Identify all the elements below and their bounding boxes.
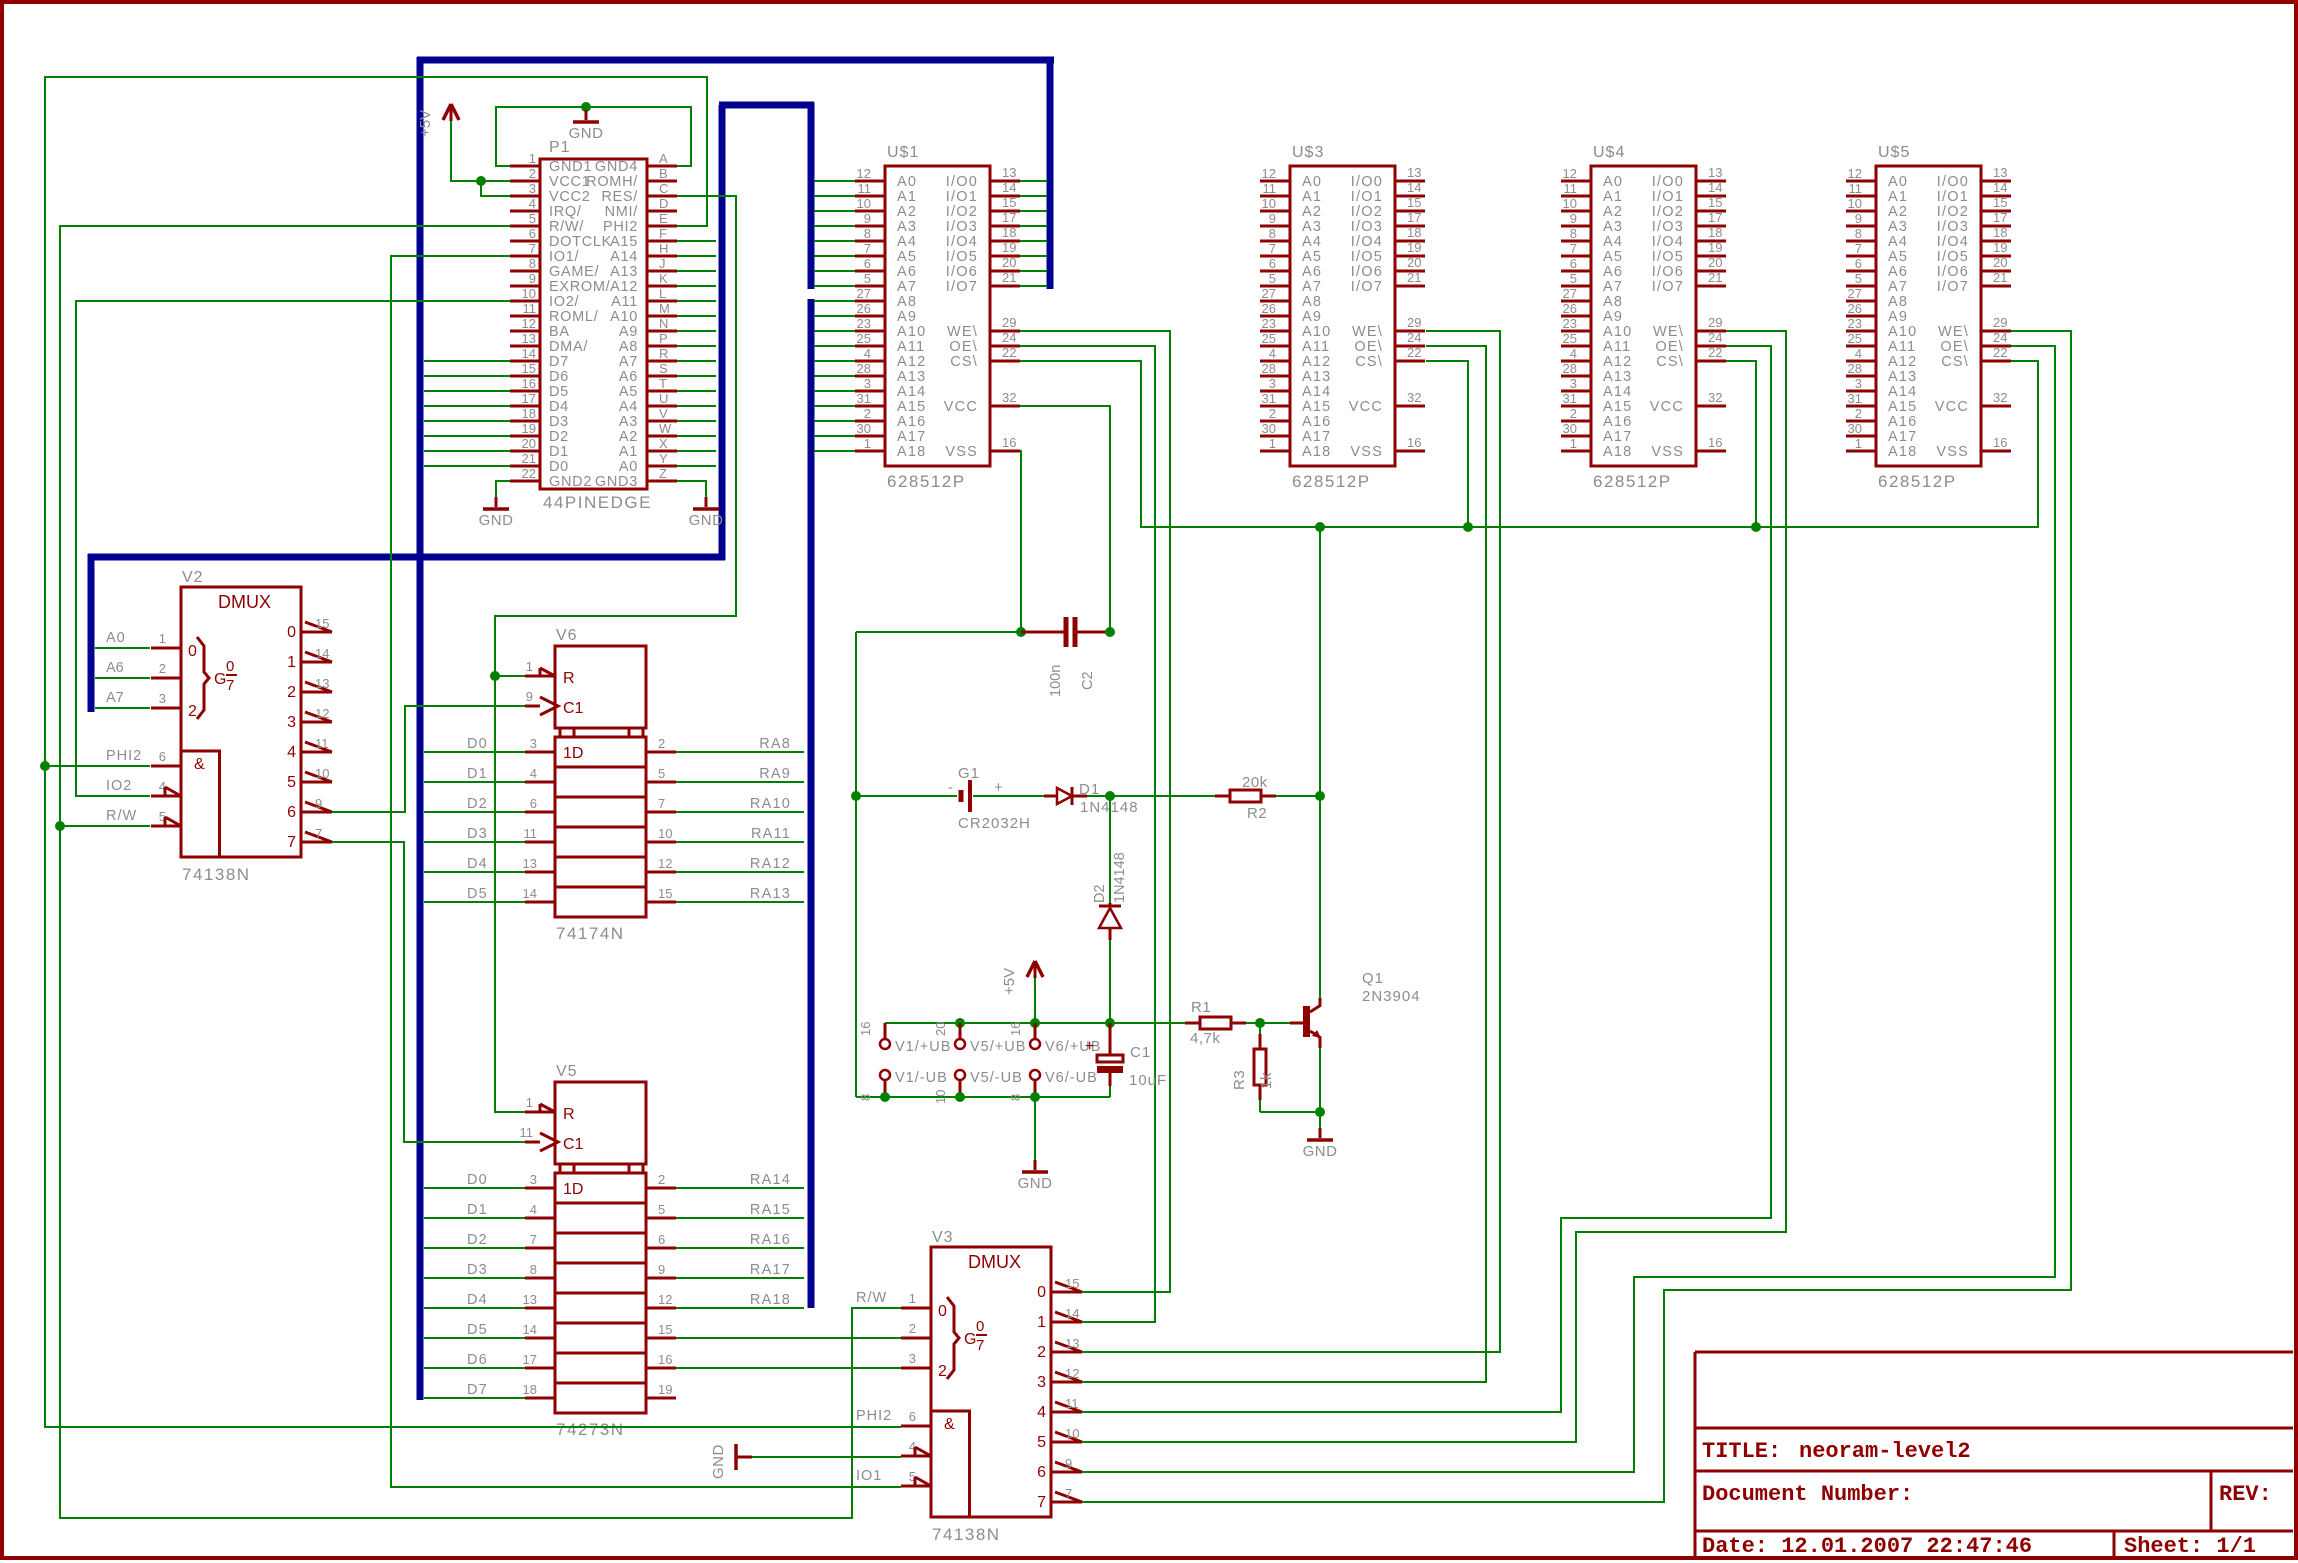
supply pin V1/-UB xyxy=(858,1070,948,1101)
svg-text:WE\: WE\ xyxy=(1653,324,1684,340)
svg-text:CR2032H: CR2032H xyxy=(958,815,1031,832)
svg-text:R1: R1 xyxy=(1191,999,1211,1016)
svg-text:D2: D2 xyxy=(549,429,569,445)
svg-text:I/O5: I/O5 xyxy=(946,249,978,265)
svg-text:A4: A4 xyxy=(1888,234,1908,250)
svg-text:4: 4 xyxy=(864,346,871,361)
svg-text:A8: A8 xyxy=(1603,294,1623,310)
svg-text:2N3904: 2N3904 xyxy=(1362,988,1421,1005)
supply pin V5/+UB xyxy=(933,1022,1026,1055)
junction R1/R3/base xyxy=(1255,1018,1265,1028)
svg-text:16: 16 xyxy=(1407,435,1421,450)
transistor Q1 2N3904 xyxy=(1290,970,1421,1048)
svg-text:A7: A7 xyxy=(619,354,638,370)
svg-text:20: 20 xyxy=(1002,255,1016,270)
diode D2 1N4148 xyxy=(1092,796,1128,1023)
svg-text:10uF: 10uF xyxy=(1129,1072,1167,1089)
svg-text:20: 20 xyxy=(1407,255,1421,270)
svg-text:A: A xyxy=(659,151,668,166)
svg-text:9: 9 xyxy=(529,271,536,286)
svg-text:8: 8 xyxy=(1008,1094,1023,1101)
svg-text:I/O6: I/O6 xyxy=(1652,264,1684,280)
svg-text:RA14: RA14 xyxy=(750,1172,791,1188)
junction rail D2/C1 xyxy=(1105,1018,1115,1028)
svg-text:A16: A16 xyxy=(1888,414,1917,430)
svg-text:21: 21 xyxy=(522,451,536,466)
svg-text:628512P: 628512P xyxy=(887,472,966,491)
svg-text:6: 6 xyxy=(864,256,871,271)
svg-text:W: W xyxy=(659,421,672,436)
title block xyxy=(1695,1352,2293,1558)
svg-text:V5: V5 xyxy=(556,1063,578,1080)
svg-text:23: 23 xyxy=(1563,316,1577,331)
svg-text:28: 28 xyxy=(1848,361,1862,376)
svg-text:RA10: RA10 xyxy=(750,796,791,812)
svg-text:15: 15 xyxy=(658,1322,672,1337)
net WE4: U$4 WE to V3 out5 xyxy=(1082,331,1786,1442)
svg-text:ROML/: ROML/ xyxy=(549,309,599,325)
wire V6 R branch xyxy=(495,675,525,677)
svg-text:E: E xyxy=(659,211,668,226)
svg-text:V2: V2 xyxy=(182,569,204,586)
svg-text:A6: A6 xyxy=(1603,264,1623,280)
svg-text:GND: GND xyxy=(710,1444,727,1479)
svg-text:2: 2 xyxy=(1570,406,1577,421)
svg-text:7: 7 xyxy=(1269,241,1276,256)
svg-text:14: 14 xyxy=(1708,180,1722,195)
wire VCC2 branch xyxy=(481,181,510,196)
svg-text:A4: A4 xyxy=(897,234,917,250)
svg-text:V6/-UB: V6/-UB xyxy=(1045,1070,1098,1086)
net VCC of U$1 down to C2 xyxy=(1020,406,1110,632)
svg-text:I/O5: I/O5 xyxy=(1937,249,1969,265)
svg-text:DMUX: DMUX xyxy=(218,592,271,612)
svg-text:4: 4 xyxy=(1037,1404,1046,1421)
junction GND loop xyxy=(581,102,591,112)
svg-text:30: 30 xyxy=(1848,421,1862,436)
svg-text:A8: A8 xyxy=(897,294,917,310)
svg-text:A17: A17 xyxy=(1603,429,1632,445)
junction R2 right xyxy=(1315,791,1325,801)
svg-text:74138N: 74138N xyxy=(932,1525,1001,1544)
svg-text:18: 18 xyxy=(523,1382,537,1397)
svg-text:A16: A16 xyxy=(1302,414,1331,430)
svg-text:22: 22 xyxy=(522,466,536,481)
wire V5 out16 to V3 pin3 xyxy=(676,1367,901,1369)
svg-text:26: 26 xyxy=(1848,301,1862,316)
svg-text:V: V xyxy=(659,406,668,421)
svg-text:4: 4 xyxy=(287,744,296,761)
svg-text:16: 16 xyxy=(1002,435,1016,450)
supply pin V6/-UB xyxy=(1008,1070,1098,1101)
svg-text:CS\: CS\ xyxy=(950,354,978,370)
svg-text:9: 9 xyxy=(1855,211,1862,226)
svg-text:I/O6: I/O6 xyxy=(946,264,978,280)
svg-text:D3: D3 xyxy=(467,826,488,842)
net PHI2 from P1 to V2 and V3 xyxy=(45,77,901,1427)
wire D0-D7 bus to V5 xyxy=(424,1188,525,1398)
svg-text:VCC2: VCC2 xyxy=(549,189,590,205)
net CS line xyxy=(1020,361,2038,527)
svg-text:628512P: 628512P xyxy=(1878,472,1957,491)
svg-text:7: 7 xyxy=(530,1232,537,1247)
svg-text:11: 11 xyxy=(1564,181,1578,196)
net RES/ from P1 to V6.R and V5.R xyxy=(495,196,736,1112)
junction -UB V6 xyxy=(1030,1092,1040,1102)
svg-text:A6: A6 xyxy=(897,264,917,280)
junction -UB V1 xyxy=(880,1092,890,1102)
svg-text:18: 18 xyxy=(1708,225,1722,240)
svg-text:32: 32 xyxy=(1002,390,1016,405)
svg-text:15: 15 xyxy=(1065,1276,1079,1291)
wire battery row to R2 xyxy=(1110,795,1215,797)
wire U$4 CS to CS line xyxy=(1726,361,1756,527)
svg-text:13: 13 xyxy=(1708,165,1722,180)
svg-text:-: - xyxy=(948,779,953,796)
bus left vertical xyxy=(417,57,424,1400)
svg-text:31: 31 xyxy=(1848,391,1862,406)
wire V2 out6 to V6.C1 xyxy=(332,706,525,812)
svg-text:A3: A3 xyxy=(1888,219,1908,235)
svg-text:WE\: WE\ xyxy=(1352,324,1383,340)
svg-text:GND: GND xyxy=(689,512,724,529)
svg-text:D2: D2 xyxy=(467,1232,488,1248)
svg-text:A0: A0 xyxy=(1888,174,1908,190)
title text Sheet xyxy=(2124,1534,2256,1559)
svg-text:A16: A16 xyxy=(1603,414,1632,430)
svg-text:1k: 1k xyxy=(1258,1072,1275,1089)
svg-text:29: 29 xyxy=(1002,315,1016,330)
svg-text:18: 18 xyxy=(1993,225,2007,240)
svg-text:D5: D5 xyxy=(467,1322,488,1338)
svg-text:10: 10 xyxy=(857,196,871,211)
connector P1 44PINEDGE xyxy=(510,139,677,512)
svg-text:A5: A5 xyxy=(1888,249,1908,265)
svg-text:R/W: R/W xyxy=(106,808,137,824)
svg-text:A12: A12 xyxy=(1302,354,1331,370)
svg-text:I/O0: I/O0 xyxy=(1937,174,1969,190)
svg-text:A10: A10 xyxy=(1302,324,1331,340)
svg-text:Document Number:: Document Number: xyxy=(1702,1482,1913,1507)
svg-text:17: 17 xyxy=(522,391,536,406)
svg-text:2: 2 xyxy=(909,1321,916,1336)
svg-text:OE\: OE\ xyxy=(1940,339,1969,355)
svg-text:18: 18 xyxy=(522,406,536,421)
svg-text:N: N xyxy=(659,316,668,331)
svg-text:D3: D3 xyxy=(467,1262,488,1278)
svg-text:19: 19 xyxy=(522,421,536,436)
svg-text:A10: A10 xyxy=(1888,324,1917,340)
svg-text:14: 14 xyxy=(1993,180,2007,195)
svg-text:PHI2: PHI2 xyxy=(603,219,638,235)
svg-text:2: 2 xyxy=(1037,1344,1046,1361)
svg-text:21: 21 xyxy=(1708,270,1722,285)
svg-text:14: 14 xyxy=(523,886,537,901)
svg-text:628512P: 628512P xyxy=(1292,472,1371,491)
svg-text:14: 14 xyxy=(523,1322,537,1337)
svg-text:VCC: VCC xyxy=(1935,399,1969,415)
svg-text:A4: A4 xyxy=(619,399,638,415)
wire GND2 to ground xyxy=(496,481,510,497)
svg-text:74138N: 74138N xyxy=(182,865,251,884)
svg-text:RA13: RA13 xyxy=(750,886,791,902)
svg-text:10: 10 xyxy=(522,286,536,301)
svg-text:G: G xyxy=(964,1331,976,1348)
svg-text:16: 16 xyxy=(1008,1022,1023,1036)
ground GND to V3 pin4 (rotated) xyxy=(710,1444,901,1479)
svg-text:9: 9 xyxy=(1065,1456,1072,1471)
svg-text:IO1: IO1 xyxy=(856,1468,882,1484)
svg-text:30: 30 xyxy=(1262,421,1276,436)
svg-text:A10: A10 xyxy=(610,309,638,325)
svg-text:I/O4: I/O4 xyxy=(1937,234,1969,250)
supply pin V1/+UB xyxy=(858,1022,951,1055)
svg-text:OE\: OE\ xyxy=(1655,339,1684,355)
svg-text:8: 8 xyxy=(530,1262,537,1277)
svg-text:31: 31 xyxy=(1563,391,1577,406)
svg-text:21: 21 xyxy=(1993,270,2007,285)
svg-text:RA11: RA11 xyxy=(751,826,791,842)
svg-text:A0: A0 xyxy=(106,630,126,646)
svg-text:11: 11 xyxy=(523,301,537,316)
svg-text:A9: A9 xyxy=(897,309,917,325)
svg-text:26: 26 xyxy=(1563,301,1577,316)
svg-text:2: 2 xyxy=(1269,406,1276,421)
svg-text:6: 6 xyxy=(1037,1464,1046,1481)
svg-text:20: 20 xyxy=(1993,255,2007,270)
svg-text:A14: A14 xyxy=(1302,384,1331,400)
junction battery minus xyxy=(851,791,861,801)
svg-text:WE\: WE\ xyxy=(1938,324,1969,340)
title text REV xyxy=(2219,1482,2272,1507)
svg-text:11: 11 xyxy=(858,181,872,196)
svg-text:13: 13 xyxy=(315,676,329,691)
svg-text:VSS: VSS xyxy=(1651,444,1684,460)
svg-text:11: 11 xyxy=(315,736,329,751)
svg-text:M: M xyxy=(659,301,670,316)
wire A0 to V2 xyxy=(95,647,150,649)
svg-text:2: 2 xyxy=(529,166,536,181)
IC U$3 628512P xyxy=(1260,144,1425,491)
svg-text:D2: D2 xyxy=(467,796,488,812)
svg-text:A15: A15 xyxy=(1603,399,1632,415)
resistor R3 1k xyxy=(1231,1023,1320,1112)
svg-text:I/O0: I/O0 xyxy=(1351,174,1383,190)
svg-text:U$4: U$4 xyxy=(1593,144,1625,161)
svg-text:19: 19 xyxy=(658,1382,672,1397)
svg-text:I/O4: I/O4 xyxy=(946,234,978,250)
svg-text:A12: A12 xyxy=(610,279,638,295)
svg-text:8: 8 xyxy=(1855,226,1862,241)
svg-text:GND: GND xyxy=(1303,1143,1338,1160)
svg-text:D7: D7 xyxy=(549,354,569,370)
svg-text:1: 1 xyxy=(526,659,533,674)
svg-text:R: R xyxy=(659,346,668,361)
svg-text:16: 16 xyxy=(1993,435,2007,450)
svg-text:28: 28 xyxy=(1262,361,1276,376)
junction CS to Q1 branch xyxy=(1315,522,1325,532)
svg-text:5: 5 xyxy=(287,774,296,791)
svg-text:RA17: RA17 xyxy=(750,1262,791,1278)
svg-text:1: 1 xyxy=(526,1095,533,1110)
svg-text:3: 3 xyxy=(1269,376,1276,391)
svg-text:3: 3 xyxy=(1855,376,1862,391)
svg-text:GND1: GND1 xyxy=(549,159,592,175)
svg-text:I/O2: I/O2 xyxy=(1652,204,1684,220)
svg-text:27: 27 xyxy=(1262,286,1276,301)
svg-text:2: 2 xyxy=(938,1363,947,1380)
svg-text:2: 2 xyxy=(658,1172,665,1187)
svg-text:6: 6 xyxy=(1855,256,1862,271)
svg-text:S: S xyxy=(659,361,668,376)
svg-text:I/O4: I/O4 xyxy=(1351,234,1383,250)
svg-text:A10: A10 xyxy=(897,324,926,340)
svg-text:12: 12 xyxy=(857,166,871,181)
wire V5 outputs RA14-RA18 to bus xyxy=(676,1188,804,1308)
svg-text:11: 11 xyxy=(520,1125,534,1140)
svg-text:15: 15 xyxy=(1993,195,2007,210)
junction R/W at V2 xyxy=(55,821,65,831)
svg-text:TITLE:: TITLE: xyxy=(1702,1439,1781,1464)
IC U$5 628512P xyxy=(1846,144,2011,491)
wire A6 to V2 xyxy=(95,677,150,679)
svg-text:A3: A3 xyxy=(1302,219,1322,235)
svg-text:G: G xyxy=(214,671,226,688)
svg-text:I/O5: I/O5 xyxy=(1652,249,1684,265)
svg-text:3: 3 xyxy=(530,736,537,751)
svg-text:A9: A9 xyxy=(1603,309,1623,325)
svg-text:RA9: RA9 xyxy=(759,766,791,782)
svg-text:5: 5 xyxy=(1269,271,1276,286)
svg-text:V6: V6 xyxy=(556,627,578,644)
svg-text:24: 24 xyxy=(1708,330,1722,345)
svg-text:A14: A14 xyxy=(610,249,638,265)
power +5V above rail xyxy=(1001,961,1043,1023)
svg-text:D0: D0 xyxy=(467,736,488,752)
junction C2 left / VSS xyxy=(1016,627,1026,637)
bus top horizontal xyxy=(417,57,1054,64)
svg-text:74273N: 74273N xyxy=(556,1420,625,1439)
svg-text:A5: A5 xyxy=(1603,249,1623,265)
IC U$4 628512P xyxy=(1561,144,1726,491)
svg-text:11: 11 xyxy=(1849,181,1863,196)
svg-text:VSS: VSS xyxy=(945,444,978,460)
svg-text:13: 13 xyxy=(523,1292,537,1307)
wire V2 PHI2 branch xyxy=(45,765,150,767)
svg-text:24: 24 xyxy=(1002,330,1016,345)
svg-text:2: 2 xyxy=(188,703,197,720)
bus vertical between P1 and U$1 xyxy=(719,105,726,560)
svg-text:11: 11 xyxy=(1263,181,1277,196)
supply pin V6/+UB xyxy=(1008,1022,1101,1055)
svg-text:A0: A0 xyxy=(897,174,917,190)
svg-text:V1/-UB: V1/-UB xyxy=(895,1070,948,1086)
svg-text:A11: A11 xyxy=(1603,339,1631,355)
svg-text:15: 15 xyxy=(1407,195,1421,210)
svg-text:A3: A3 xyxy=(619,414,638,430)
svg-text:27: 27 xyxy=(1848,286,1862,301)
svg-text:15: 15 xyxy=(315,616,329,631)
svg-text:A7: A7 xyxy=(1603,279,1623,295)
svg-text:4: 4 xyxy=(1855,346,1862,361)
svg-text:19: 19 xyxy=(1002,240,1016,255)
svg-text:11: 11 xyxy=(524,826,538,841)
svg-text:A2: A2 xyxy=(897,204,917,220)
svg-text:1: 1 xyxy=(909,1291,916,1306)
svg-text:13: 13 xyxy=(1407,165,1421,180)
title text Document Number xyxy=(1702,1482,1913,1507)
junction VCC1/VCC2 xyxy=(476,176,486,186)
title text TITLE: neoram-level2 xyxy=(1702,1439,1971,1464)
svg-text:A1: A1 xyxy=(619,444,638,460)
svg-text:DMUX: DMUX xyxy=(968,1252,1021,1272)
svg-text:I/O3: I/O3 xyxy=(1351,219,1383,235)
svg-text:A1: A1 xyxy=(1888,189,1908,205)
svg-text:A11: A11 xyxy=(1302,339,1330,355)
wire V2 out7 to V5.C1 xyxy=(332,842,525,1142)
svg-text:31: 31 xyxy=(1262,391,1276,406)
svg-text:A7: A7 xyxy=(1302,279,1322,295)
svg-text:4: 4 xyxy=(1269,346,1276,361)
svg-text:I/O0: I/O0 xyxy=(1652,174,1684,190)
svg-text:I/O3: I/O3 xyxy=(1937,219,1969,235)
svg-text:3: 3 xyxy=(1037,1374,1046,1391)
ground GND below supply block xyxy=(1018,1097,1053,1192)
svg-text:12: 12 xyxy=(1848,166,1862,181)
svg-text:2: 2 xyxy=(1855,406,1862,421)
svg-text:0: 0 xyxy=(938,1303,947,1320)
svg-text:A13: A13 xyxy=(1888,369,1917,385)
wire emitter down xyxy=(1319,1048,1321,1112)
junction C2 right / VCC xyxy=(1105,627,1115,637)
svg-text:3: 3 xyxy=(909,1351,916,1366)
svg-text:6: 6 xyxy=(1269,256,1276,271)
svg-text:A6: A6 xyxy=(1302,264,1322,280)
net R2/CS vertical xyxy=(1319,527,1321,796)
svg-text:27: 27 xyxy=(857,286,871,301)
svg-text:26: 26 xyxy=(1262,301,1276,316)
svg-text:A1: A1 xyxy=(1302,189,1322,205)
svg-text:19: 19 xyxy=(1407,240,1421,255)
svg-text:1: 1 xyxy=(864,436,871,451)
svg-text:IO2/: IO2/ xyxy=(549,294,579,310)
svg-text:D5: D5 xyxy=(467,886,488,902)
svg-text:7: 7 xyxy=(529,241,536,256)
svg-text:20: 20 xyxy=(522,436,536,451)
svg-text:RES/: RES/ xyxy=(601,189,638,205)
svg-text:A2: A2 xyxy=(1302,204,1322,220)
svg-text:7: 7 xyxy=(287,834,296,851)
svg-text:19: 19 xyxy=(1708,240,1722,255)
resistor R1 4,7k xyxy=(1185,999,1260,1047)
svg-text:A5: A5 xyxy=(1302,249,1322,265)
svg-text:9: 9 xyxy=(315,796,322,811)
svg-text:A6: A6 xyxy=(106,660,124,676)
svg-text:V3: V3 xyxy=(932,1229,954,1246)
ground GND below P1 left xyxy=(479,497,514,529)
svg-text:15: 15 xyxy=(1708,195,1722,210)
svg-text:17: 17 xyxy=(1993,210,2007,225)
svg-text:11: 11 xyxy=(1065,1396,1079,1411)
net -UB rail xyxy=(856,1096,1110,1098)
svg-text:D0: D0 xyxy=(549,459,569,475)
svg-text:6: 6 xyxy=(530,796,537,811)
svg-text:I/O6: I/O6 xyxy=(1937,264,1969,280)
net WE1: U$1 WE to V3 out0 xyxy=(1020,331,1170,1292)
svg-text:22: 22 xyxy=(1993,345,2007,360)
svg-text:A2: A2 xyxy=(619,429,638,445)
IC V6 74174N xyxy=(467,627,791,943)
